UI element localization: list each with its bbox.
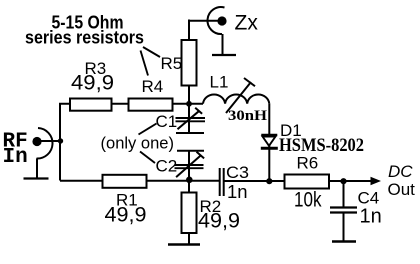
svg-text:Out: Out — [388, 180, 416, 199]
svg-text:10k: 10k — [294, 189, 322, 212]
svg-text:DC: DC — [388, 162, 413, 181]
svg-text:In: In — [3, 146, 28, 169]
svg-text:49,9: 49,9 — [105, 204, 147, 227]
svg-text:L1: L1 — [210, 72, 229, 91]
svg-text:30nH: 30nH — [228, 108, 267, 124]
svg-text:C2: C2 — [156, 156, 178, 175]
svg-text:1n: 1n — [227, 181, 248, 202]
svg-text:C4: C4 — [358, 188, 380, 207]
svg-text:Zx: Zx — [235, 12, 259, 35]
svg-text:R5: R5 — [161, 54, 183, 73]
svg-text:(only one): (only one) — [101, 133, 175, 152]
svg-text:series resistors: series resistors — [25, 28, 144, 48]
svg-text:49,9: 49,9 — [71, 71, 114, 94]
svg-text:C1: C1 — [156, 112, 178, 131]
svg-text:R4: R4 — [142, 77, 164, 96]
svg-text:HSMS-8202: HSMS-8202 — [279, 135, 364, 156]
svg-text:R6: R6 — [297, 154, 319, 173]
svg-text:49,9: 49,9 — [198, 209, 240, 232]
svg-text:1n: 1n — [360, 206, 382, 228]
svg-text:C3: C3 — [226, 163, 249, 182]
